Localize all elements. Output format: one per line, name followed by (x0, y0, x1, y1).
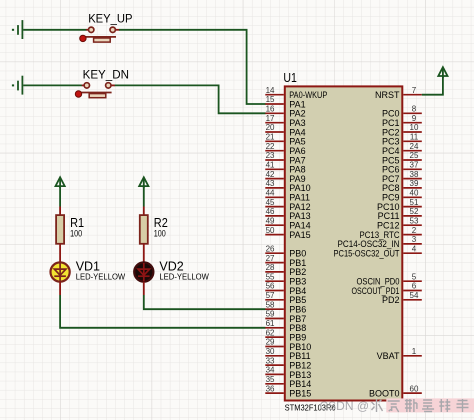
svg-text:U1: U1 (283, 70, 297, 85)
svg-text:60: 60 (410, 384, 419, 393)
pin 35 (PB14) (265, 375, 311, 389)
svg-text:PD2: PD2 (382, 295, 400, 305)
svg-text:57: 57 (266, 291, 275, 300)
pin 41 (PA8) (265, 161, 305, 175)
svg-text:1: 1 (412, 347, 417, 356)
pin 61 (PB8) (265, 319, 306, 333)
svg-text:LED-YELLOW: LED-YELLOW (76, 272, 126, 282)
svg-text:4: 4 (412, 244, 417, 253)
svg-text:29: 29 (266, 338, 275, 347)
svg-text:55: 55 (266, 272, 275, 281)
svg-text:KEY_DN: KEY_DN (83, 68, 129, 82)
svg-text:28: 28 (266, 263, 275, 272)
pin 42 (PA9) (265, 170, 305, 184)
svg-text:44: 44 (266, 189, 275, 198)
power symbol VCC above R2 (139, 177, 148, 188)
svg-text:25: 25 (410, 151, 419, 160)
svg-text:40: 40 (410, 189, 419, 198)
pin 3 (PC14-OSC32_IN) (338, 235, 422, 249)
LED VD2 (LED-YELLOW) (134, 260, 209, 282)
pin 8 (PC0) (382, 105, 422, 119)
svg-text:56: 56 (266, 282, 275, 291)
svg-text:37: 37 (410, 161, 419, 170)
pin 10 (PC2) (382, 123, 422, 137)
svg-text:59: 59 (266, 310, 275, 319)
pin 44 (PA11) (265, 189, 310, 203)
svg-text:PA15: PA15 (289, 230, 310, 240)
pin 22 (PA6) (265, 142, 305, 156)
pin 1 (VBAT) (377, 347, 422, 361)
pin 25 (PC5) (382, 151, 422, 165)
microcontroller U1 (STM32F103R6) (283, 70, 402, 413)
pin 16 (PA2) (265, 105, 305, 119)
svg-text:100: 100 (70, 229, 82, 239)
power symbol VCC above R1 (56, 177, 65, 188)
wire GND1 to KEY_UP left terminal (23, 29, 86, 31)
pin 46 (PA13) (265, 207, 310, 221)
svg-text:42: 42 (266, 170, 275, 179)
svg-text:10: 10 (410, 123, 419, 132)
push button KEY_DN (75, 68, 129, 98)
wire VD2 cathode to PB6 (143, 282, 145, 295)
svg-text:35: 35 (266, 375, 275, 384)
pin 30 (PB11) (265, 347, 310, 361)
pin 54 (PD2) (382, 291, 422, 305)
svg-text:26: 26 (266, 244, 275, 253)
pin 20 (PA4) (265, 123, 305, 137)
svg-text:49: 49 (266, 216, 275, 225)
svg-text:2: 2 (412, 226, 417, 235)
ground GND1 (13, 20, 22, 39)
pin 51 (PC10) (377, 198, 422, 212)
svg-text:34: 34 (266, 366, 275, 375)
pin 38 (PC7) (382, 170, 422, 184)
svg-text:9: 9 (412, 114, 417, 123)
ground GND2 (13, 76, 22, 95)
pin 27 (PB1) (265, 254, 306, 268)
pin 45 (PA12) (265, 198, 310, 212)
svg-text:20: 20 (266, 123, 275, 132)
pin 11 (PC3) (382, 133, 422, 147)
svg-text:53: 53 (410, 216, 419, 225)
wire VD1 cathode to PB8 (59, 282, 61, 295)
wire GND2 to KEY_DN left terminal (23, 84, 82, 86)
pin 43 (PA10) (265, 179, 310, 193)
svg-text:PC15-OSC32_OUT: PC15-OSC32_OUT (334, 249, 400, 259)
svg-text:6: 6 (412, 282, 417, 291)
pin 24 (PC4) (382, 142, 422, 156)
svg-text:3: 3 (412, 235, 417, 244)
svg-text:22: 22 (266, 142, 275, 151)
wire power to R1 top (59, 187, 61, 207)
svg-text:36: 36 (266, 384, 275, 393)
pin 58 (PB6) (265, 300, 306, 314)
wire KEY_UP to PA1 (net KEY_UP) (119, 30, 266, 104)
pin 40 (PC9) (382, 189, 422, 203)
svg-text:21: 21 (266, 133, 275, 142)
wire R1 bottom to VD1 anode (59, 244, 61, 263)
pin 33 (PB12) (265, 356, 311, 370)
svg-text:45: 45 (266, 198, 275, 207)
LED VD1 (LED-YELLOW) (51, 260, 126, 282)
pin 62 (PB9) (265, 328, 306, 342)
svg-text:27: 27 (266, 254, 275, 263)
wire NRST to power symbol (422, 76, 443, 95)
svg-text:11: 11 (410, 133, 419, 142)
pin 6 (OSCOUT_PD1) (352, 282, 422, 296)
svg-text:51: 51 (410, 198, 419, 207)
svg-text:39: 39 (410, 179, 419, 188)
pin 37 (PC6) (382, 161, 422, 175)
pin 59 (PB7) (265, 310, 306, 324)
svg-text:38: 38 (410, 170, 419, 179)
svg-text:KEY_UP: KEY_UP (88, 12, 132, 26)
svg-text:62: 62 (266, 328, 275, 337)
pin 34 (PB13) (265, 366, 311, 380)
svg-text:100: 100 (154, 229, 166, 239)
wire KEY_DN to PA2 (net KEY_DN) (115, 85, 266, 113)
svg-text:8: 8 (412, 105, 417, 114)
svg-text:46: 46 (266, 207, 275, 216)
svg-text:54: 54 (410, 291, 419, 300)
svg-text:15: 15 (266, 95, 275, 104)
svg-text:17: 17 (266, 114, 275, 123)
pin 53 (PC12) (377, 216, 422, 230)
pin 29 (PB10) (265, 338, 311, 352)
svg-text:58: 58 (266, 300, 275, 309)
wire R2 bottom to VD2 anode (143, 244, 145, 263)
svg-text:BOOT0: BOOT0 (369, 388, 400, 398)
svg-text:LED-YELLOW: LED-YELLOW (159, 272, 209, 282)
pin 17 (PA3) (265, 114, 305, 128)
pin 39 (PC8) (382, 179, 422, 193)
svg-text:30: 30 (266, 347, 275, 356)
svg-text:50: 50 (266, 226, 275, 235)
pin 57 (PB5) (265, 291, 306, 305)
power symbol VCC at NRST (438, 67, 447, 78)
pin 56 (PB4) (265, 282, 306, 296)
pin 5 (OSCIN_PD0) (357, 272, 422, 286)
push button KEY_UP (80, 12, 133, 42)
svg-text:61: 61 (266, 319, 275, 328)
pin 52 (PC11) (378, 207, 422, 221)
svg-text:14: 14 (266, 86, 275, 95)
pin 23 (PA7) (265, 151, 305, 165)
resistor R1 (56, 215, 84, 244)
pin 21 (PA5) (265, 133, 305, 147)
wire power to R2 top (143, 187, 145, 207)
pin 14 (PA0-WKUP) (265, 86, 327, 100)
pin 36 (PB15) (265, 384, 311, 398)
pin 4 (PC15-OSC32_OUT) (334, 244, 422, 258)
pin 2 (PC13_RTC) (360, 226, 422, 240)
svg-text:16: 16 (266, 105, 275, 114)
svg-text:5: 5 (412, 272, 417, 281)
svg-text:24: 24 (410, 142, 419, 151)
pin 9 (PC1) (382, 114, 422, 128)
resistor R2 (140, 215, 168, 244)
svg-text:NRST: NRST (375, 90, 400, 100)
pin 7 (NRST) (375, 86, 422, 100)
svg-text:CSDN @: CSDN @ (320, 399, 370, 413)
pin 26 (PB0) (265, 244, 306, 258)
svg-text:7: 7 (412, 86, 417, 95)
pin 55 (PB3) (265, 272, 306, 286)
svg-text:23: 23 (266, 151, 275, 160)
pin 15 (PA1) (265, 95, 305, 109)
svg-text:43: 43 (266, 179, 275, 188)
svg-text:PB15: PB15 (289, 388, 311, 398)
watermark pink highlight band (386, 398, 474, 412)
pin 50 (PA15) (265, 226, 310, 240)
pin 49 (PA14) (265, 216, 310, 230)
pin 28 (PB2) (265, 263, 306, 277)
pin 60 (BOOT0) (369, 384, 422, 398)
svg-text:VBAT: VBAT (377, 351, 400, 361)
svg-text:41: 41 (266, 161, 275, 170)
svg-text:33: 33 (266, 356, 275, 365)
svg-text:52: 52 (410, 207, 419, 216)
